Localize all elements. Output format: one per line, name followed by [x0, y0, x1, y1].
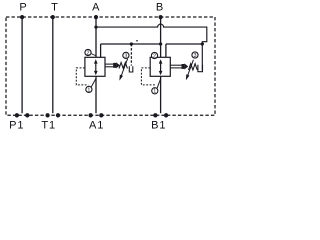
port T1 dot left — [45, 113, 49, 117]
svg-text:B: B — [156, 2, 164, 14]
enclosure dashed border — [6, 17, 215, 115]
port B1 dot right — [164, 113, 168, 117]
port T1 dot right — [56, 113, 60, 117]
speck — [136, 40, 138, 42]
port T dot — [51, 15, 55, 19]
wire T-T1 line — [52, 17, 54, 113]
port P dot — [20, 15, 24, 19]
label circle 1 V1 — [86, 86, 92, 93]
wire V2 spring channel top — [170, 64, 182, 66]
wire V2 spring channel bottom — [170, 67, 182, 69]
port P1 dot left — [15, 113, 19, 117]
svg-text:P1: P1 — [9, 119, 24, 131]
label circle 2 V2 — [151, 52, 157, 59]
wire B down to valve V2 — [160, 17, 162, 57]
node B bridge junction — [159, 42, 162, 45]
svg-text:A: A — [92, 2, 100, 14]
valve V2 body — [150, 57, 170, 76]
spring V1 — [119, 63, 127, 69]
node V1 drain junction — [130, 42, 133, 45]
port A1 dot right — [99, 113, 103, 117]
label circle 2 V1 — [85, 49, 91, 56]
leader V1 port1 — [91, 79, 96, 87]
wire V1 top-right riser — [100, 44, 102, 57]
wire V2 bridge — [166, 43, 202, 45]
label circle 3 V1 — [123, 52, 129, 59]
wire V1 spring channel bottom — [105, 66, 114, 68]
svg-text:1: 1 — [153, 89, 156, 95]
pilot line V2 dashed — [141, 68, 156, 85]
port B1 dot left — [153, 113, 157, 117]
valve V1 body — [85, 57, 105, 76]
tank symbol V2 drain — [198, 65, 203, 72]
valve V2 flow arrow — [159, 59, 163, 75]
svg-text:B1: B1 — [151, 119, 166, 131]
port B dot — [159, 15, 163, 19]
leader V2 port1 — [157, 79, 161, 89]
valve V2 poppet arrow — [182, 63, 189, 69]
valve V1 flow arrow — [94, 59, 98, 75]
svg-text:3: 3 — [124, 53, 127, 59]
svg-text:2: 2 — [87, 50, 90, 56]
port P1 dot right — [25, 113, 29, 117]
svg-text:T1: T1 — [41, 119, 56, 131]
svg-text:A1: A1 — [89, 119, 104, 131]
pilot line V1 dashed — [76, 68, 88, 85]
node right drain junction — [201, 42, 204, 45]
valve V1 poppet arrow — [113, 62, 120, 68]
wire A down to valve V1 — [95, 17, 97, 57]
spring V2 — [189, 64, 198, 70]
svg-text:3: 3 — [194, 53, 197, 59]
wire valve V2 to B1 — [160, 76, 162, 113]
port A dot — [94, 15, 98, 19]
wire A to right valve drain (hops over B) — [96, 24, 207, 70]
svg-text:T: T — [51, 2, 59, 14]
svg-text:P: P — [19, 2, 27, 14]
adjust arrow V2 — [186, 60, 194, 80]
wire V1 bridge to B — [101, 43, 161, 45]
label circle 3 V2 — [192, 52, 198, 59]
svg-text:1: 1 — [87, 87, 90, 93]
adjust arrow V1 — [119, 59, 127, 81]
port A1 dot left — [88, 113, 92, 117]
tank symbol V1 drain — [129, 66, 133, 72]
leader V1 port2 — [91, 54, 95, 56]
wire valve V1 to A1 — [95, 76, 97, 113]
pilot drain V1 dashed — [130, 44, 132, 66]
wire V1 spring channel top — [105, 63, 114, 65]
wire P-P1 line — [21, 17, 23, 113]
node A junction — [94, 25, 97, 28]
svg-text:2: 2 — [153, 53, 156, 59]
wire V2 top-right riser — [165, 44, 167, 57]
label circle 1 V2 — [152, 88, 158, 95]
